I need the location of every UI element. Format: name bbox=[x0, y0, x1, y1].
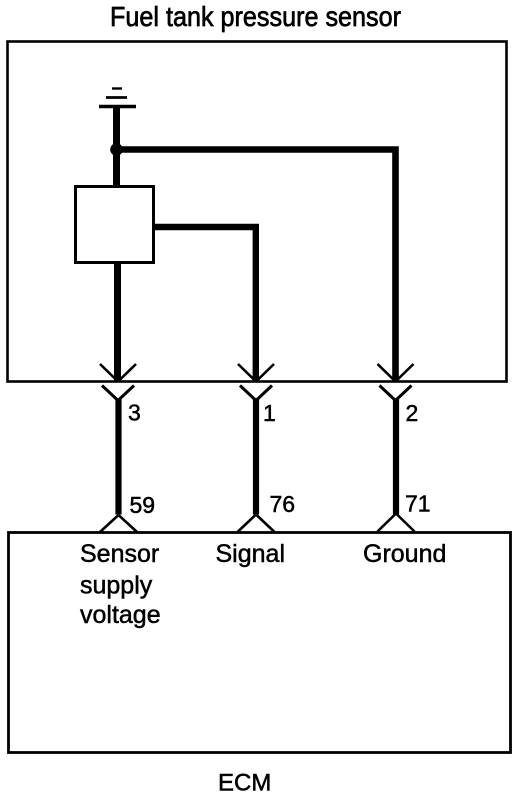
svg-text:Sensor: Sensor bbox=[80, 540, 159, 568]
connector pin 2 (male arrow / female V at box edge) bbox=[378, 364, 414, 401]
svg-text:2: 2 bbox=[406, 400, 419, 426]
connector pin 3 (male arrow / female V at box edge) bbox=[100, 364, 136, 401]
wire: junction to pin 2 (right then down) bbox=[117, 150, 396, 382]
svg-text:76: 76 bbox=[270, 491, 296, 517]
svg-text:59: 59 bbox=[130, 492, 156, 518]
ground bbox=[99, 89, 136, 107]
fuel tank pressure sensor assembly box bbox=[8, 42, 507, 382]
wire: pin 3 to ECM terminal 59 bbox=[115, 399, 121, 515]
wire: pin 1 to ECM terminal 76 bbox=[253, 399, 259, 515]
svg-text:3: 3 bbox=[128, 400, 141, 426]
svg-text:supply: supply bbox=[80, 572, 153, 600]
ECM box bbox=[9, 533, 511, 753]
connector at ECM terminal 59 bbox=[100, 515, 137, 532]
sensor element box bbox=[76, 187, 154, 263]
svg-text:Ground: Ground bbox=[363, 540, 446, 568]
svg-text:voltage: voltage bbox=[80, 601, 161, 629]
svg-text:ECM: ECM bbox=[218, 770, 271, 797]
connector pin 1 (male arrow / female V at box edge) bbox=[238, 364, 274, 401]
connector at ECM terminal 76 bbox=[238, 515, 275, 533]
wire: ground to sensor box top bbox=[113, 107, 120, 190]
node: junction of ground wire and pin 2 wire bbox=[110, 143, 123, 156]
connector at ECM terminal 71 bbox=[378, 514, 415, 532]
wire: sensor box bottom to pin 3 bbox=[114, 262, 121, 382]
svg-text:Signal: Signal bbox=[216, 540, 286, 568]
wire: pin 2 to ECM terminal 71 bbox=[393, 399, 399, 515]
svg-text:71: 71 bbox=[405, 491, 431, 517]
svg-text:1: 1 bbox=[263, 400, 276, 426]
svg-text:Fuel tank pressure sensor: Fuel tank pressure sensor bbox=[110, 1, 401, 32]
wire: sensor box right side to pin 1 (right then down) bbox=[152, 227, 256, 382]
